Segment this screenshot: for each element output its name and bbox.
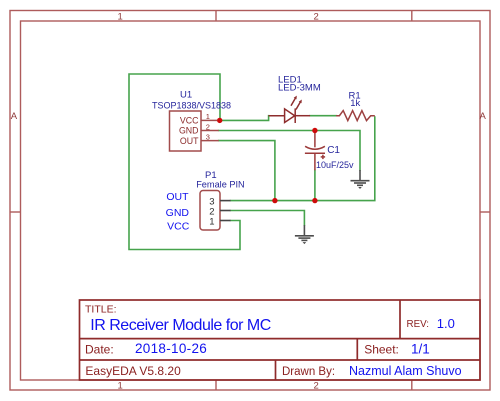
svg-text:2018-10-26: 2018-10-26: [135, 341, 207, 356]
svg-text:1.0: 1.0: [437, 316, 455, 331]
svg-text:1/1: 1/1: [411, 342, 430, 357]
svg-text:VCC: VCC: [167, 221, 190, 233]
svg-text:Nazmul Alam Shuvo: Nazmul Alam Shuvo: [349, 364, 462, 378]
svg-text:U1: U1: [180, 89, 192, 100]
svg-text:GND: GND: [179, 126, 199, 136]
svg-text:1: 1: [118, 381, 123, 392]
svg-text:A: A: [480, 111, 487, 122]
svg-text:Female PIN: Female PIN: [196, 179, 245, 189]
svg-text:OUT: OUT: [180, 136, 199, 146]
svg-text:TSOP1838/VS1838: TSOP1838/VS1838: [152, 101, 231, 111]
svg-text:OUT: OUT: [166, 191, 189, 203]
svg-text:1: 1: [209, 216, 214, 227]
svg-text:1: 1: [118, 12, 123, 23]
svg-text:2: 2: [314, 12, 319, 23]
svg-text:1k: 1k: [350, 98, 360, 109]
svg-text:3: 3: [206, 132, 210, 141]
svg-text:C1: C1: [327, 145, 340, 156]
svg-text:GND: GND: [166, 207, 190, 219]
svg-text:IR Receiver Module for MC: IR Receiver Module for MC: [90, 317, 270, 334]
svg-text:LED-3MM: LED-3MM: [278, 83, 321, 94]
svg-text:Date:: Date:: [85, 342, 114, 356]
svg-text:2: 2: [314, 381, 319, 392]
svg-text:A: A: [11, 111, 18, 122]
svg-text:2: 2: [206, 122, 210, 131]
svg-text:Drawn By:: Drawn By:: [282, 366, 335, 378]
svg-text:VCC: VCC: [180, 116, 199, 126]
svg-text:EasyEDA V5.8.20: EasyEDA V5.8.20: [85, 364, 181, 378]
svg-text:REV:: REV:: [407, 319, 430, 330]
svg-text:1: 1: [206, 112, 210, 121]
svg-text:10uF/25v: 10uF/25v: [316, 160, 354, 170]
svg-text:Sheet:: Sheet:: [364, 343, 399, 357]
svg-text:TITLE:: TITLE:: [85, 304, 117, 316]
